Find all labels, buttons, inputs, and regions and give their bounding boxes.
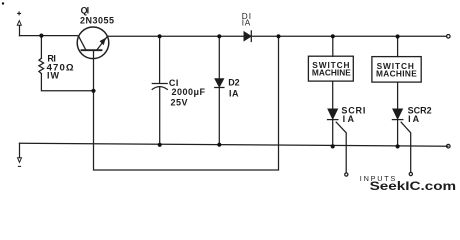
svg-text:IA: IA <box>229 89 239 99</box>
svg-text:MACHINE: MACHINE <box>312 68 351 78</box>
svg-text:A: A <box>245 18 251 27</box>
svg-text:D2: D2 <box>228 77 239 87</box>
svg-text:QI: QI <box>81 5 90 15</box>
svg-text:25V: 25V <box>171 97 188 107</box>
svg-text:IA: IA <box>343 114 355 124</box>
svg-text:I: I <box>242 18 244 27</box>
svg-text:IA: IA <box>408 114 420 124</box>
svg-text:SeekIC.com: SeekIC.com <box>370 179 457 193</box>
svg-text:SCR2: SCR2 <box>408 106 432 116</box>
svg-text:2000μF: 2000μF <box>172 87 206 97</box>
svg-text:2N3055: 2N3055 <box>80 15 114 25</box>
svg-text:MACHINE: MACHINE <box>376 69 417 79</box>
svg-text:IW: IW <box>47 70 60 80</box>
